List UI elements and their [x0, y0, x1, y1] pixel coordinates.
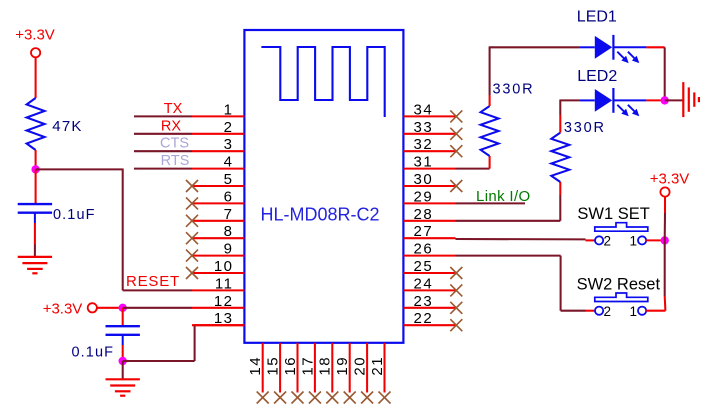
- U1 right pin 23 stub: [403, 307, 455, 309]
- wire: to SW2 left: [561, 310, 586, 312]
- junction node C2/GND/pin13: [119, 357, 127, 365]
- wire RTS net: [134, 168, 192, 170]
- wire: SW2 left lead: [586, 310, 596, 312]
- wire TX net: [134, 115, 192, 117]
- C2 bottom lead (blue stub): [122, 335, 124, 345]
- wire: R2 top to LED1 row: [489, 47, 491, 95]
- svg-text:HL-MD08R-C2: HL-MD08R-C2: [260, 204, 379, 224]
- svg-text:SW1 SET: SW1 SET: [577, 205, 649, 223]
- no-ERC mark pin 19: [344, 392, 356, 404]
- U1 right pin 28 stub: [403, 220, 455, 222]
- wire: LED2 cathode to ground node: [646, 99, 664, 101]
- wire: C1 to ground: [34, 223, 36, 245]
- svg-text:10: 10: [214, 258, 234, 275]
- wire: C2 to ground junction: [122, 345, 124, 361]
- wire: SW1 right lead to +3.3V rail: [646, 239, 665, 241]
- svg-text:26: 26: [414, 241, 434, 258]
- U1 left pin 1 stub: [192, 115, 244, 117]
- U1 right pin 24 stub: [403, 289, 455, 291]
- U1 bottom pin 18 stub: [331, 343, 333, 393]
- R3 bottom lead / wire up: [559, 195, 561, 221]
- svg-text:+3.3V: +3.3V: [43, 301, 83, 318]
- svg-text:29: 29: [414, 188, 434, 205]
- svg-text:RX: RX: [161, 118, 181, 134]
- wire: junction to ground: [122, 361, 124, 379]
- svg-text:330R: 330R: [493, 81, 535, 97]
- capacitor C2 0.1uF plates: [106, 325, 140, 327]
- no-ERC marks on unconnected right pins: [450, 110, 462, 122]
- wire: LED1 row horizontal: [489, 46, 580, 48]
- U1 left pin 6 stub: [192, 202, 244, 204]
- U1 bottom pin 19 stub: [349, 343, 351, 393]
- svg-text:3: 3: [224, 136, 234, 153]
- no-ERC mark pin 16: [292, 392, 304, 404]
- wire: R1 bottom to junction: [35, 150, 37, 169]
- resistor R3 330R zigzag: [551, 133, 569, 182]
- U1 bottom pin 21 stub: [383, 343, 385, 393]
- svg-text:11: 11: [215, 275, 234, 292]
- svg-text:32: 32: [414, 136, 434, 153]
- no-ERC mark pin 17: [309, 392, 321, 404]
- svg-text:+3.3V: +3.3V: [15, 27, 55, 44]
- U1 left pin 12 stub: [192, 307, 244, 309]
- R2 top lead: [489, 95, 491, 106]
- capacitor C1 0.1uF plates: [18, 203, 52, 205]
- LED D1 symbol: [579, 35, 646, 63]
- switch SW2 symbol: [595, 293, 648, 302]
- svg-text:LED2: LED2: [577, 68, 617, 85]
- wire: rail down to SW2: [664, 240, 666, 296]
- U1 right pin 34 stub: [403, 115, 455, 117]
- svg-text:9: 9: [224, 241, 234, 258]
- wire: vertical drop to SW2 row: [560, 256, 562, 311]
- wire: pin 29 Link I/O net: [456, 202, 526, 204]
- svg-text:7: 7: [224, 206, 234, 223]
- U1 left pin 8 stub: [192, 237, 244, 239]
- svg-text:15: 15: [265, 356, 282, 376]
- wire RESET net: junction right: [36, 168, 123, 170]
- no-ERC mark pin 15: [274, 392, 286, 404]
- svg-text:2: 2: [604, 304, 612, 319]
- ground symbol GND3 (sideways): [682, 82, 684, 117]
- U1 right pin 30 stub: [403, 185, 455, 187]
- svg-text:34: 34: [414, 101, 434, 118]
- junction node LED cathodes/ground: [661, 96, 669, 104]
- no-ERC mark pin 21: [379, 392, 391, 404]
- svg-text:1: 1: [629, 304, 637, 319]
- U1 right pin 25 stub: [403, 272, 455, 274]
- U1 left pin 11 stub: [192, 289, 244, 291]
- wire: junction down to C2: [122, 308, 124, 326]
- svg-text:24: 24: [414, 275, 434, 292]
- svg-text:12: 12: [214, 293, 234, 310]
- wire RX net: [134, 133, 192, 135]
- ground symbol GND2: [106, 378, 140, 380]
- wire: junction down to C1: [35, 169, 37, 203]
- LED D2 symbol: [579, 88, 646, 116]
- IC U1 HL-MD08R-C2 body: [244, 30, 403, 343]
- U1 right pin 31 stub: [403, 168, 455, 170]
- svg-text:14: 14: [247, 356, 264, 376]
- U1 right pin 33 stub: [403, 133, 455, 135]
- svg-text:47K: 47K: [52, 118, 82, 135]
- wire: pin 27 to SW1: [456, 238, 586, 240]
- wire: pin 31 to R2: [456, 168, 490, 170]
- U1 left pin 2 stub: [192, 133, 244, 135]
- svg-text:8: 8: [224, 223, 234, 240]
- C1 bottom lead (blue stub): [34, 213, 36, 223]
- U1 right pin 26 stub: [403, 255, 455, 257]
- U1 left pin 3 stub: [192, 150, 244, 152]
- svg-text:27: 27: [414, 223, 434, 240]
- svg-text:22: 22: [414, 310, 434, 327]
- no-ERC marks on unconnected left pins 5-10: [186, 180, 198, 192]
- wire: vertical up to pin 13: [194, 325, 196, 361]
- svg-text:23: 23: [414, 293, 434, 310]
- wire: LED2 row horizontal: [559, 99, 579, 101]
- U1 right pin 32 stub: [403, 150, 455, 152]
- svg-text:1: 1: [629, 234, 637, 249]
- wire RESET net: vertical drop: [122, 169, 124, 291]
- wire: +3.3V to R1 top: [35, 57, 37, 98]
- svg-text:16: 16: [282, 356, 299, 376]
- svg-text:30: 30: [414, 171, 434, 188]
- svg-text:28: 28: [414, 206, 434, 223]
- power port +3.3V (top left) circle: [31, 48, 40, 57]
- wire: R3 top to LED2 row: [559, 100, 561, 115]
- wire: VCC junction to pin 12: [123, 307, 192, 309]
- no-ERC mark pin 14: [257, 392, 269, 404]
- svg-text:6: 6: [224, 188, 234, 205]
- U1 left pin 5 stub: [192, 185, 244, 187]
- svg-text:0.1uF: 0.1uF: [72, 344, 115, 360]
- svg-text:2: 2: [604, 234, 612, 249]
- svg-text:17: 17: [299, 356, 316, 376]
- svg-text:4: 4: [224, 154, 234, 171]
- power port +3.3V (right) circle: [660, 187, 669, 196]
- U1 left pin 4 stub: [192, 168, 244, 170]
- U1 bottom pin 16 stub: [296, 343, 298, 393]
- wire: gnd junction right: [123, 360, 195, 362]
- wire: right vertical LED1->LED2: [664, 47, 666, 100]
- svg-text:21: 21: [369, 356, 386, 376]
- svg-text:5: 5: [224, 171, 234, 188]
- svg-text:33: 33: [414, 119, 434, 136]
- svg-text:25: 25: [414, 258, 434, 275]
- wire: SW1 left lead: [586, 239, 596, 241]
- svg-text:0.1uF: 0.1uF: [53, 207, 96, 223]
- U1 right pin 22 stub: [403, 324, 455, 326]
- junction node SW1/+3.3V rail: [661, 236, 669, 244]
- no-ERC mark pin 18: [326, 392, 338, 404]
- U1 bottom pin 14 stub: [262, 343, 264, 393]
- U1 left pin 7 stub: [192, 220, 244, 222]
- wire: pin 28 to R3 column: [456, 220, 561, 222]
- R2 bottom lead: [489, 156, 491, 169]
- svg-text:CTS: CTS: [160, 136, 189, 152]
- antenna meander inside U1: [261, 47, 384, 117]
- svg-text:TX: TX: [164, 101, 183, 117]
- power port +3.3V (lower left) circle: [88, 303, 97, 312]
- junction node R1/C1/RESET: [31, 165, 39, 173]
- wire RESET net: to pin 11: [123, 289, 192, 291]
- junction node VCC/C2: [119, 304, 127, 312]
- svg-text:LED1: LED1: [577, 9, 617, 26]
- resistor R1 47K zigzag: [27, 98, 45, 150]
- wire: pin 26 right: [456, 255, 561, 257]
- svg-text:1: 1: [224, 101, 234, 118]
- svg-text:31: 31: [414, 154, 434, 171]
- U1 right pin 29 stub: [403, 202, 455, 204]
- U1 right pin 27 stub: [403, 237, 455, 239]
- svg-text:SW2 Reset: SW2 Reset: [577, 275, 661, 293]
- U1 left pin 13 stub: [192, 324, 244, 326]
- wire: +3.3V down to SW1 node: [664, 197, 666, 213]
- U1 left pin 10 stub: [192, 272, 244, 274]
- svg-text:18: 18: [317, 356, 334, 376]
- switch SW1 symbol: [595, 223, 648, 232]
- resistor R2 330R zigzag: [481, 106, 499, 156]
- U1 bottom pin 20 stub: [366, 343, 368, 393]
- svg-text:2: 2: [224, 119, 234, 136]
- no-ERC mark pin 20: [361, 392, 373, 404]
- wire CTS net: [134, 150, 192, 152]
- wire: node to ground bars: [665, 99, 684, 101]
- ground symbol GND1: [18, 256, 52, 258]
- U1 left pin 9 stub: [192, 255, 244, 257]
- svg-text:+3.3V: +3.3V: [650, 170, 690, 187]
- wire: +3.3V to junction: [97, 307, 123, 309]
- R3 top lead: [559, 115, 561, 133]
- svg-text:RESET: RESET: [126, 273, 180, 290]
- wire: SW2 right lead: [646, 310, 665, 312]
- U1 bottom pin 15 stub: [279, 343, 281, 393]
- wire: into pin 13: [195, 324, 245, 326]
- svg-text:330R: 330R: [564, 120, 606, 136]
- U1 bottom pin 17 stub: [314, 343, 316, 393]
- svg-text:19: 19: [334, 356, 351, 376]
- svg-text:RTS: RTS: [161, 153, 190, 169]
- svg-text:20: 20: [352, 356, 369, 376]
- wire: LED1 cathode to corner: [646, 46, 664, 48]
